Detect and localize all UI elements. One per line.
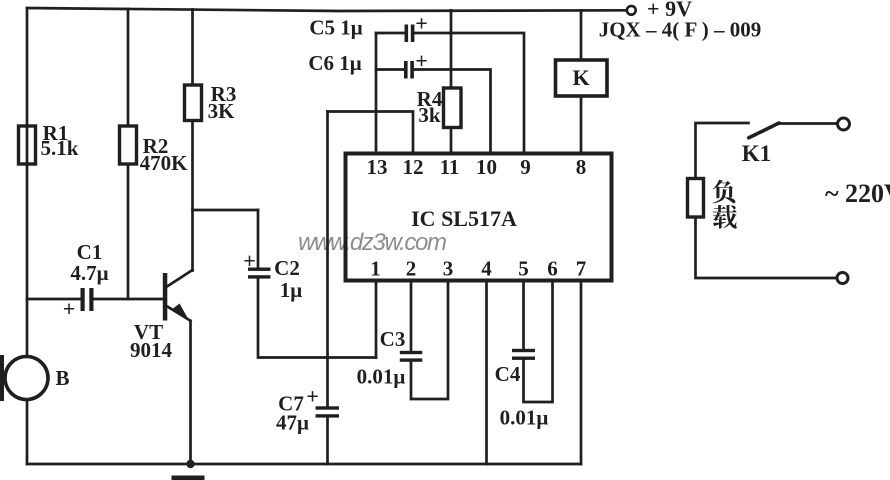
svg-text:11: 11 — [440, 155, 460, 179]
svg-text:5: 5 — [518, 257, 529, 281]
svg-text:B: B — [55, 366, 69, 390]
svg-text:3: 3 — [443, 257, 454, 281]
svg-text:13: 13 — [367, 155, 388, 179]
svg-text:C6 1μ: C6 1μ — [308, 51, 361, 75]
svg-text:5.1k: 5.1k — [41, 136, 79, 160]
svg-text:1: 1 — [370, 257, 381, 281]
svg-text:+: + — [306, 384, 319, 409]
svg-text:K: K — [572, 65, 589, 90]
svg-text:4: 4 — [481, 257, 492, 281]
svg-text:3k: 3k — [418, 103, 441, 127]
svg-text:10: 10 — [476, 155, 497, 179]
svg-text:2: 2 — [406, 257, 417, 281]
svg-text:C3: C3 — [380, 327, 406, 351]
svg-text:47μ: 47μ — [276, 411, 309, 435]
svg-text:9: 9 — [520, 155, 531, 179]
svg-text:JQX – 4( F ) – 009: JQX – 4( F ) – 009 — [599, 18, 762, 42]
svg-text:+: + — [63, 296, 76, 321]
svg-text:IC SL517A: IC SL517A — [411, 206, 517, 231]
svg-text:9014: 9014 — [130, 338, 173, 362]
svg-text:C5 1μ: C5 1μ — [309, 16, 362, 40]
svg-text:3K: 3K — [208, 99, 236, 123]
svg-text:+: + — [415, 11, 428, 36]
svg-text:www.dz3w.com: www.dz3w.com — [298, 229, 447, 256]
svg-text:1μ: 1μ — [280, 278, 303, 302]
svg-text:K1: K1 — [742, 141, 771, 166]
svg-text:470K: 470K — [140, 151, 189, 175]
svg-text:0.01μ: 0.01μ — [500, 406, 549, 430]
svg-text:+: + — [243, 248, 256, 273]
svg-text:~ 220V: ~ 220V — [825, 179, 890, 208]
svg-text:6: 6 — [547, 257, 558, 281]
svg-text:0.01μ: 0.01μ — [357, 365, 406, 389]
svg-text:7: 7 — [576, 257, 587, 281]
svg-text:C4: C4 — [495, 362, 521, 386]
svg-text:+: + — [415, 48, 428, 73]
svg-text:12: 12 — [403, 155, 424, 179]
svg-text:4.7μ: 4.7μ — [70, 261, 108, 285]
svg-text:8: 8 — [576, 155, 587, 179]
svg-text:C2: C2 — [274, 256, 300, 280]
